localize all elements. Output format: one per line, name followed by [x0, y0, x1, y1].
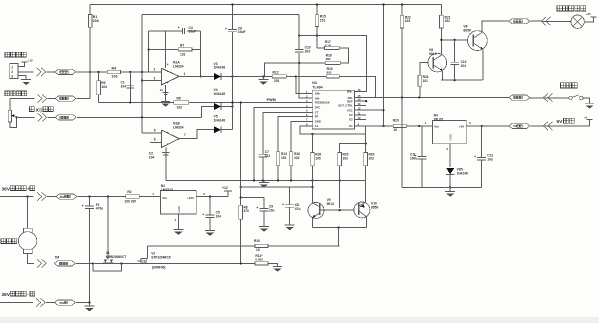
node emitter rail/C13 [454, 79, 456, 81]
node rail [311, 179, 313, 181]
net flag 5V [509, 123, 530, 128]
capacitor C10 [295, 46, 311, 54]
wire opampA +in [142, 80, 161, 82]
resistor R15 [315, 4, 326, 48]
svg-text:STP120NF15: STP120NF15 [151, 255, 171, 259]
net flag row3 [55, 115, 76, 120]
resistor R10 [254, 239, 268, 252]
wire analog ground rail [166, 180, 366, 182]
resistor R8 [239, 205, 249, 219]
svg-text:101: 101 [423, 79, 429, 83]
node opampA out [200, 75, 202, 77]
svg-text:102: 102 [177, 105, 183, 109]
capacitor C2 on N1B pin11 [149, 147, 170, 180]
node gnd rail [449, 186, 451, 188]
node sense/PWM [240, 101, 242, 103]
resistor R7 [148, 31, 201, 72]
ground connector [21, 80, 31, 85]
wire battery+ right [78, 196, 126, 198]
svg-text:5V: 5V [513, 124, 517, 128]
ground battery- [85, 303, 95, 312]
node battery+/F1 [88, 195, 90, 197]
power tap lamp [584, 12, 596, 22]
resistor R2 [124, 190, 139, 204]
node R26/C8 wire [311, 186, 313, 188]
svg-text:VCC: VCC [347, 108, 353, 112]
diode V4 [214, 88, 226, 110]
node rail [277, 179, 279, 181]
ground analog rail [259, 181, 269, 188]
svg-text:104: 104 [461, 64, 467, 68]
svg-text:131: 131 [180, 53, 186, 57]
wire pin3 to gnd [18, 76, 26, 80]
svg-text:151: 151 [445, 19, 451, 23]
connector J1 [10, 64, 18, 79]
svg-text:−: − [167, 70, 169, 74]
wire pin8 loop [300, 126, 366, 134]
wire V8 emitter [482, 50, 484, 81]
wire N4 gnd pin [446, 144, 450, 167]
wire V9 emitter [311, 218, 313, 228]
wire pin10 E2 [354, 119, 366, 121]
svg-text:104: 104 [121, 84, 127, 88]
wire N1B -in [150, 142, 162, 144]
svg-text:C2: C2 [349, 113, 353, 117]
node rail [253, 179, 255, 181]
svg-text:1IN-: 1IN- [315, 96, 320, 100]
node C6 top [231, 3, 233, 5]
resistor R4 [107, 66, 120, 78]
arrow row3 [38, 113, 47, 121]
svg-text:151: 151 [320, 18, 326, 22]
svg-text:+5: +5 [584, 115, 588, 119]
wire C10 column [299, 15, 313, 99]
wire switch to gnd [583, 98, 589, 103]
svg-text:100u: 100u [410, 156, 417, 160]
wire V4 cathode [221, 106, 232, 108]
resistor R13 [276, 152, 287, 181]
resistor R19 [326, 67, 339, 78]
svg-text:R23: R23 [393, 119, 399, 123]
regulator N4 78L05 [433, 114, 467, 144]
net flag battery+ [56, 194, 77, 199]
wire driver rail drop [337, 228, 339, 246]
svg-text:+: + [178, 26, 180, 30]
svg-text:36V: 36V [2, 292, 11, 298]
node VCC/E1 row [382, 125, 384, 127]
ground switch [585, 103, 594, 108]
wire battery- mid [46, 302, 55, 304]
capacitor C1 [121, 72, 135, 103]
node row1/C1 [129, 71, 131, 73]
arrow row1 [37, 68, 46, 76]
svg-text:LM324: LM324 [173, 126, 184, 130]
svg-text:2: 2 [154, 68, 156, 72]
transistor V2 STP120NF15 [137, 246, 170, 270]
transistor V8 8050 [463, 25, 487, 51]
node rail [262, 179, 264, 181]
wire pin1 to +12 [18, 62, 25, 66]
node C12 tap [481, 125, 483, 127]
power +12 rail [222, 186, 232, 197]
arrow battery+ [37, 192, 46, 200]
wire C9 stub [241, 196, 264, 198]
node V3/C6 rail [231, 75, 233, 77]
wire lamp row [531, 20, 571, 22]
svg-text:103: 103 [343, 156, 349, 160]
resistor R5 [174, 97, 189, 110]
wire V8 base row [441, 39, 468, 41]
resistor R23 [393, 119, 406, 132]
transistor V10 8550 [354, 202, 379, 218]
regulator N2 LM7812 [161, 184, 197, 214]
wire R17-R18 loop [339, 48, 348, 63]
svg-text:47u: 47u [295, 207, 301, 211]
svg-text:9.1K: 9.1K [325, 44, 332, 48]
svg-text:R7: R7 [180, 44, 184, 48]
wire V9 collector to V10 base [320, 209, 355, 211]
svg-text:+: + [256, 206, 258, 210]
svg-text:+: + [202, 213, 204, 217]
svg-text:+: + [82, 204, 84, 208]
power +5V tap [584, 115, 593, 126]
label 36V蓄电池+端 [2, 186, 35, 193]
svg-text:1N4148: 1N4148 [214, 92, 226, 96]
svg-text:8550: 8550 [371, 206, 379, 210]
node battery+/V1 [107, 195, 109, 197]
wire PWM row [99, 101, 174, 103]
svg-text:8050: 8050 [463, 29, 471, 33]
svg-text:+5V: +5V [459, 125, 464, 129]
node sense/motor row [240, 262, 242, 264]
wire pin4 DTC [254, 107, 313, 180]
net flag brake lamp [509, 19, 530, 24]
wire battery+ row [0, 196, 34, 198]
wire pin6 RT [278, 116, 313, 151]
wire emitter rail [441, 79, 482, 81]
svg-text:78L05: 78L05 [434, 117, 444, 121]
wire N4 out [466, 121, 509, 126]
svg-text:OUT_CTRL: OUT_CTRL [338, 104, 353, 108]
svg-text:R4: R4 [112, 66, 117, 70]
svg-text:103: 103 [101, 85, 107, 89]
arrow battery- [36, 298, 45, 306]
svg-text:−: − [167, 142, 169, 146]
svg-text:3: 3 [11, 75, 13, 79]
op-amp N1A [154, 61, 186, 86]
wire opampA out [179, 75, 214, 77]
ic pin labels [306, 88, 361, 128]
svg-text:E1: E1 [349, 124, 353, 128]
svg-text:151: 151 [281, 156, 287, 160]
diode VD5 [446, 168, 468, 176]
wire N2 gnd pin [175, 214, 179, 230]
node VCC top [382, 3, 384, 5]
svg-text:LM324: LM324 [173, 65, 184, 69]
wire N1B out [179, 130, 214, 139]
wire R19 to pin13 area [339, 76, 375, 97]
lamp 刹车指示灯 [571, 15, 584, 28]
wire pin9 E1 [354, 125, 393, 127]
svg-text:1N4148: 1N4148 [214, 118, 226, 122]
svg-text:+: + [167, 131, 169, 135]
node pin8 loop/R26 [311, 133, 313, 135]
wire V3 cathode [221, 75, 272, 77]
node driver rail [337, 226, 339, 228]
svg-text:0.005: 0.005 [255, 257, 263, 261]
node C10/top jog [298, 34, 300, 36]
wire feedback right rail [200, 31, 202, 76]
resistor R16 [289, 152, 300, 181]
svg-text:470u: 470u [96, 207, 104, 211]
svg-text:100 2W: 100 2W [124, 200, 136, 204]
node pin1 drop [295, 75, 297, 77]
node R15 top [316, 3, 318, 5]
svg-text:PWM: PWM [267, 98, 276, 102]
wire row1 left [18, 71, 34, 73]
svg-text:36V: 36V [59, 195, 64, 199]
resistor R20 [364, 126, 375, 202]
wire row1 to opampA [121, 71, 162, 73]
svg-text:103: 103 [405, 19, 411, 23]
svg-text:N3: N3 [312, 81, 317, 85]
svg-text:+36: +36 [586, 12, 591, 16]
wire V1 bypass loop [93, 263, 122, 271]
node feedback/row1 [141, 71, 143, 73]
resistor R24 [418, 75, 429, 97]
node pot wiper/row3 [15, 116, 17, 118]
node C13 top [454, 39, 456, 41]
ground N4 [445, 187, 455, 196]
label 限速电阻 [5, 91, 27, 96]
wire V5 cathode [221, 129, 232, 131]
wire pin15 brake row [354, 97, 568, 99]
diode V5 [214, 115, 226, 134]
node rail [290, 179, 292, 181]
node sense/C8 row [240, 186, 242, 188]
svg-text:682: 682 [326, 57, 331, 61]
svg-text:+12V: +12V [187, 196, 194, 200]
svg-text:1N4148: 1N4148 [457, 171, 468, 175]
svg-text:IC): IC) [36, 108, 43, 113]
node rail [339, 179, 341, 181]
node row1/R3 [97, 71, 99, 73]
svg-text:331: 331 [265, 154, 271, 158]
node C11 tap [418, 125, 420, 127]
wire PWM row right [189, 101, 313, 103]
capacitor C4 [149, 26, 201, 34]
transistor V9 9014 [308, 198, 334, 218]
svg-text:36V: 36V [2, 187, 11, 193]
svg-text:MBR20060CT: MBR20060CT [106, 255, 126, 259]
svg-text:+: + [474, 155, 476, 159]
svg-text:(60NF06): (60NF06) [152, 266, 165, 270]
net flag motor- [55, 261, 76, 266]
resistor R12 [272, 70, 286, 83]
ic N3 TL494 [312, 81, 354, 129]
wire V1 column [107, 197, 109, 260]
svg-text:+: + [167, 81, 169, 85]
node rail/opampA plus [141, 79, 143, 81]
svg-text:104: 104 [149, 155, 155, 159]
label PWM [267, 98, 276, 102]
svg-text:R12: R12 [273, 70, 279, 74]
wire N2 out [196, 192, 228, 197]
ground C5 [205, 231, 215, 236]
svg-text:1: 1 [184, 72, 186, 76]
wire pin11 C2 [354, 114, 366, 116]
svg-text:103: 103 [369, 156, 375, 160]
ground C9 [259, 226, 269, 231]
svg-text:104: 104 [216, 214, 222, 218]
svg-text:10u: 10u [487, 157, 493, 161]
svg-text:C1: C1 [315, 124, 319, 128]
wire VD5 to rail [449, 174, 451, 187]
wire R12 to R19 [286, 75, 326, 77]
label 5V输出 [557, 118, 575, 125]
svg-text:Vin: Vin [434, 125, 439, 129]
resistor R17 [325, 40, 340, 49]
svg-text:1: 1 [11, 65, 13, 69]
arrow 5V row [543, 122, 552, 130]
resistor R3 [97, 72, 107, 103]
svg-text:470: 470 [244, 209, 250, 213]
wire corner to R1 [89, 4, 91, 14]
svg-text:5V: 5V [557, 119, 564, 125]
wire pin12 VCC [354, 109, 383, 111]
label 36V蓄电池-端 [2, 291, 35, 298]
power +12 connector [21, 58, 33, 62]
svg-text:105: 105 [315, 156, 321, 160]
capacitor C6 [225, 26, 246, 34]
svg-text:11: 11 [160, 88, 164, 92]
node row3/opamp plus rail [141, 116, 143, 118]
wire R21 to V6 [440, 28, 442, 53]
wire row3 mid [48, 116, 56, 118]
wire feedback left rail [141, 15, 143, 134]
net flag brake [509, 95, 530, 100]
rail C6 column [232, 4, 234, 129]
resistor R1 [88, 15, 98, 28]
svg-text:822: 822 [327, 70, 332, 74]
wire row2 left [10, 98, 35, 100]
ground R11 [273, 266, 282, 271]
svg-text:+12: +12 [222, 186, 228, 190]
svg-text:CT: CT [315, 111, 319, 115]
resistor R11 [255, 254, 268, 265]
node battery+/motor [26, 195, 28, 197]
svg-text:10: 10 [393, 128, 397, 132]
wire R23 to 78L05 [406, 121, 433, 126]
capacitor C7 [259, 150, 271, 181]
wire row2 right [77, 98, 91, 100]
node gnd tap [262, 75, 264, 77]
wire C8 row [241, 186, 290, 188]
capacitor C11 [410, 126, 427, 187]
wire top rail [90, 3, 441, 5]
arrow lamp row [541, 17, 550, 25]
svg-text:1IN+: 1IN+ [315, 92, 321, 96]
wire pin13 [354, 104, 366, 106]
wire R2 to N2 [139, 192, 160, 197]
wire 5V gnd rail [402, 186, 482, 188]
svg-text:9014: 9014 [327, 202, 335, 206]
diode V1 MBR20060CT [103, 251, 126, 263]
node R25 jog [365, 142, 367, 144]
label motor net [55, 255, 60, 259]
node VCC pin12 [382, 109, 384, 111]
svg-text:10: 10 [256, 248, 260, 252]
arrow brake row [543, 93, 552, 101]
svg-text:+: + [282, 203, 284, 207]
svg-text:FEEDBACK: FEEDBACK [315, 101, 330, 105]
node C6/PWM [231, 101, 233, 103]
net flag battery- [55, 300, 76, 305]
resistor R22 [400, 4, 411, 187]
arrow motor- [37, 259, 46, 267]
svg-text:GND: GND [177, 205, 181, 213]
capacitor C5 [202, 197, 221, 231]
wire row3 left [17, 116, 35, 118]
svg-text:2IN-: 2IN- [348, 96, 353, 100]
arrow row2 [38, 94, 47, 102]
label 电刹车 [561, 83, 578, 88]
ground opampA pin11 [161, 101, 170, 106]
wire R1 bottom to rows [89, 27, 91, 98]
resistor R18 [325, 53, 340, 64]
svg-text:3: 3 [154, 76, 156, 80]
node V1 left [92, 262, 94, 264]
ground N2 [174, 230, 184, 235]
net flag row1 [55, 69, 76, 74]
wire sense column [240, 102, 242, 263]
capacitor F1 [82, 197, 104, 303]
label 带IC转把 [30, 107, 54, 113]
resistor R25 [338, 144, 366, 209]
net flag row2 [55, 96, 76, 101]
wire row3 right [77, 116, 201, 118]
wire V10 emitter [365, 217, 367, 228]
svg-text:LM7812: LM7812 [161, 188, 173, 192]
svg-text:E2: E2 [349, 118, 353, 122]
svg-text:201: 201 [274, 79, 280, 83]
wire top rail corner R21 [440, 4, 442, 15]
diode V3 [214, 62, 226, 80]
svg-text:203: 203 [93, 19, 99, 23]
node C1/PWM [129, 101, 131, 103]
wire motor- row [76, 262, 255, 264]
wire C8 to V9 base col [290, 186, 313, 188]
svg-text:R10: R10 [254, 239, 260, 243]
motor M1 [18, 197, 36, 254]
svg-text:9014: 9014 [429, 52, 437, 56]
wire V6 emitter [441, 71, 443, 80]
wire R15 to R17 [317, 47, 325, 49]
node N2 out/C5 [209, 195, 211, 197]
svg-text:R5: R5 [177, 97, 181, 101]
wire VCC column [383, 4, 385, 126]
wire V6 base [420, 63, 428, 76]
svg-text:2IN+: 2IN+ [347, 90, 353, 94]
wire R11 to gnd [268, 263, 278, 266]
node sense/C9 [240, 196, 242, 198]
wire V10 collector col [364, 202, 366, 203]
wire V8 collector to lamp row [482, 21, 509, 32]
wire battery- right [76, 302, 90, 304]
node R15/jog [316, 34, 318, 36]
node V6 collector [440, 39, 442, 41]
capacitor C12 [474, 126, 493, 187]
